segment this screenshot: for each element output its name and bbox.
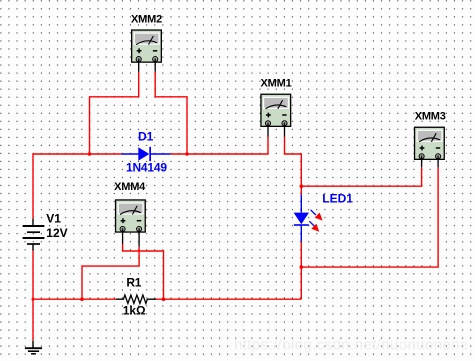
ground [25, 341, 42, 354]
resistor R1 [116, 295, 156, 303]
svg-text:XMM2: XMM2 [131, 13, 162, 25]
wire XMM4 + lead to bottom net right of R1 [123, 244, 164, 299]
LED LED1 [294, 195, 323, 242]
svg-text:R1: R1 [126, 276, 141, 290]
wire XMM3 + lead to LED anode node [301, 167, 421, 186]
svg-text:XMM3: XMM3 [415, 111, 446, 123]
wire bottom net left of R1 [33, 298, 116, 300]
diode D1 [122, 147, 171, 161]
multimeter XMM3 [415, 111, 446, 168]
wire battery+ to diode anode (net at y=154) [33, 154, 122, 219]
svg-text:V1: V1 [46, 211, 61, 225]
wire XMM4 - lead to bottom net left of R1 [82, 247, 139, 300]
junction at 301.3,267.1 [300, 265, 304, 269]
junction at 33,299.2 [32, 298, 35, 301]
wire diode cathode to XMM1 + lead [170, 137, 268, 154]
wire LED cathode down to bottom net [300, 242, 302, 300]
svg-text:1kΩ: 1kΩ [123, 304, 146, 318]
svg-text:D1: D1 [138, 130, 154, 144]
multimeter XMM1 [261, 78, 292, 137]
junction at 163.5,299.2 [162, 297, 166, 301]
wire battery- down to ground [32, 250, 34, 340]
wire XMM2 + lead down-left to net [90, 72, 139, 154]
wire XMM3 - lead to LED cathode node [301, 167, 438, 267]
svg-text:LED1: LED1 [322, 192, 353, 206]
svg-text:1N4149: 1N4149 [126, 161, 167, 175]
junction at 187,154 [185, 152, 189, 156]
multimeter XMM2 [131, 13, 162, 71]
wire XMM1 - lead to LED anode node [285, 137, 302, 186]
battery V1 [23, 219, 45, 251]
wire XMM2 - lead down-right to net [155, 72, 187, 154]
svg-text:12V: 12V [46, 226, 67, 240]
junction at 82,299.2 [80, 297, 84, 301]
wire bottom net right of R1 [156, 298, 301, 300]
junction at 89.5,154 [88, 152, 92, 156]
wire LED anode stub [300, 186, 302, 195]
svg-text:XMM1: XMM1 [261, 78, 292, 90]
multimeter XMM4 [114, 181, 146, 246]
svg-text:https://blog.csdn.net/nuonuone: https://blog.csdn.net/nuonuonene [234, 337, 469, 354]
svg-text:XMM4: XMM4 [114, 181, 146, 193]
junction at 301.3,186.2 [300, 184, 304, 188]
